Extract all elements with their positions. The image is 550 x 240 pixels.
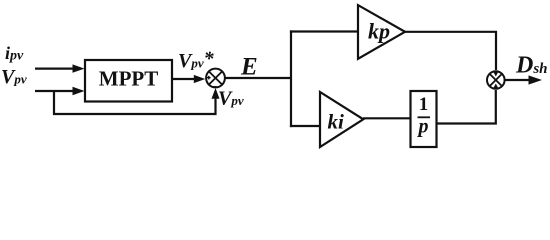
wire: branch to kp <box>290 30 358 32</box>
block MPPT U1 <box>85 60 172 102</box>
wire: E output of summing junction <box>225 77 291 79</box>
wire: ki to 1/p block <box>363 117 411 119</box>
gain block ki <box>320 92 363 147</box>
multiplier junction <box>487 71 505 89</box>
svg-text:p: p <box>417 116 429 138</box>
svg-text:Vpv: Vpv <box>218 88 244 110</box>
summing junction (V_pv* minus V_pv) <box>206 69 225 88</box>
svg-text:Vpv: Vpv <box>1 66 27 88</box>
wire: V_pv feedback run <box>54 88 220 114</box>
svg-text:ki: ki <box>328 110 345 134</box>
svg-text:E: E <box>240 54 258 81</box>
svg-text:ipv: ipv <box>5 43 24 64</box>
wire: MPPT output <box>172 75 205 83</box>
wire: branch to ki <box>290 125 320 127</box>
block 1/p integrator <box>411 91 437 147</box>
svg-text:kp: kp <box>368 19 390 44</box>
wire: i_pv input arrow <box>35 64 85 72</box>
wire: D_sh output arrow <box>505 75 542 84</box>
wire: branch vertical <box>290 30 292 127</box>
svg-text:Vpv*: Vpv* <box>178 48 215 72</box>
svg-text:Dsh: Dsh <box>515 53 548 79</box>
wire: V_pv input arrow <box>35 87 85 95</box>
svg-text:1: 1 <box>419 94 429 115</box>
svg-text:MPPT: MPPT <box>99 67 158 91</box>
wire: 1/p to multiplier <box>437 90 496 124</box>
wire: kp output to multiplier <box>405 32 496 70</box>
gain block kp <box>358 5 405 59</box>
